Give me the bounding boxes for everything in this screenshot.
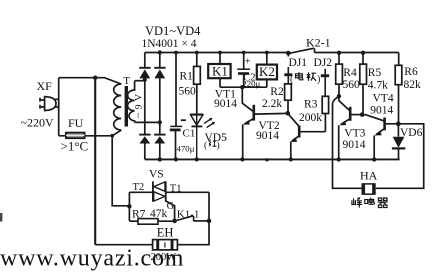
label buzzer chinese (feng ming qi) <box>352 198 388 208</box>
resistor R5 <box>361 51 365 55</box>
svg-text:T: T <box>123 75 130 87</box>
wire: L branch vertical to heater loop <box>94 78 96 245</box>
svg-text:FU: FU <box>68 116 84 130</box>
switch K1-1 <box>177 216 194 222</box>
svg-text:G: G <box>167 201 175 212</box>
svg-text:9014: 9014 <box>214 98 237 110</box>
svg-text:470μ: 470μ <box>177 144 195 154</box>
relay coil K1 <box>218 51 222 55</box>
heater EH <box>153 240 178 250</box>
node: secondary bottom tap <box>158 120 162 124</box>
resistor R1 <box>195 51 199 55</box>
transformer T secondary winding <box>128 81 135 123</box>
diode VD6 <box>397 124 399 137</box>
svg-text:200k: 200k <box>299 112 322 124</box>
fuse FU body <box>66 133 85 139</box>
wire: plug top lead <box>53 78 59 136</box>
svg-text:HA: HA <box>360 169 378 183</box>
svg-text:~220V: ~220V <box>21 116 54 130</box>
svg-text:VD1~VD4: VD1~VD4 <box>145 24 201 38</box>
node: buzzer feed tap <box>337 94 341 98</box>
svg-text:(: ( <box>290 74 294 85</box>
svg-text:R7: R7 <box>132 208 146 220</box>
node: VT1 emitter bottom <box>240 157 244 161</box>
svg-text:1N4001 × 4: 1N4001 × 4 <box>142 38 197 50</box>
transistor VT2 <box>288 113 299 125</box>
node: T2/R7 split <box>127 204 131 208</box>
plug XF body <box>45 97 56 111</box>
node: rail speck <box>265 158 268 161</box>
svg-text:T2: T2 <box>133 182 145 193</box>
svg-text:9014: 9014 <box>343 139 366 151</box>
svg-text:www.wuyazi.com: www.wuyazi.com <box>0 246 184 272</box>
LED VD5 arrows <box>204 118 215 127</box>
node: right column top <box>158 50 162 54</box>
transistor VT3 <box>339 96 350 110</box>
triac VS <box>152 181 154 201</box>
buzzer HA <box>362 183 365 195</box>
left edge speck <box>0 213 2 222</box>
resistor R4 <box>337 51 341 55</box>
wire: bottom emitter rail <box>145 158 400 160</box>
plug prong top <box>40 98 45 102</box>
wire: buzzer right link <box>376 124 424 189</box>
transistor VT1 <box>242 87 253 111</box>
node: VT3 emitter bottom <box>337 157 341 161</box>
svg-text:R4: R4 <box>343 67 357 79</box>
wire: plug bottom lead <box>53 106 59 108</box>
wire: VS branch from neutral <box>112 136 129 206</box>
diode VD1 <box>139 67 150 69</box>
LED VD5 <box>190 113 203 115</box>
capacitor C2 <box>242 51 246 55</box>
wire: T1 lead <box>166 191 209 193</box>
wire: bridge right column <box>159 53 161 160</box>
glyph feng <box>352 198 362 208</box>
svg-text:2.2k: 2.2k <box>262 98 282 110</box>
node: VT3 collector / VT4 base junction <box>360 112 365 117</box>
svg-text:560: 560 <box>343 79 361 91</box>
svg-text:VT4: VT4 <box>373 92 394 104</box>
switch K2-1 <box>286 51 291 56</box>
svg-text:560: 560 <box>179 86 197 98</box>
wire: top DC rail <box>145 52 290 54</box>
svg-text:47k: 47k <box>150 208 168 220</box>
transistor VT4 <box>362 115 384 121</box>
svg-text:): ) <box>217 140 220 151</box>
svg-text:R6: R6 <box>404 66 418 78</box>
wire: secondary top to bridge <box>135 80 145 82</box>
capacitor C1 <box>174 51 178 55</box>
wire: EH right side <box>177 192 209 244</box>
svg-text:(: ( <box>204 140 207 151</box>
svg-text:R5: R5 <box>368 67 382 79</box>
svg-text:K1-1: K1-1 <box>177 208 200 220</box>
svg-text:R3: R3 <box>304 98 318 110</box>
svg-text:DJ1: DJ1 <box>289 57 308 69</box>
node: bridge right bottom <box>158 157 162 161</box>
node: VT2 emitter bottom <box>289 157 293 161</box>
relay coil K2 <box>265 51 269 55</box>
wire: secondary bottom to bridge <box>135 121 160 123</box>
wire: gate lead <box>166 201 175 221</box>
glyph ji <box>307 72 316 81</box>
svg-text:EH: EH <box>157 225 174 239</box>
plug prong bottom <box>40 105 45 109</box>
diode VD3 <box>139 134 150 136</box>
node: VD5 bottom <box>195 157 199 161</box>
svg-text:VS: VS <box>149 168 164 180</box>
svg-text:DJ2: DJ2 <box>314 57 333 69</box>
svg-text:VT3: VT3 <box>344 128 365 140</box>
node: L branch junction <box>93 76 97 80</box>
svg-text:K2-1: K2-1 <box>306 35 331 49</box>
wire: K1/C2/K2 bottom connector <box>220 86 267 88</box>
svg-text:82k: 82k <box>404 79 422 91</box>
electrode DJ1 <box>287 53 289 84</box>
resistor R2 <box>285 84 292 100</box>
node: VT1 base tap <box>240 85 244 89</box>
svg-text:XF: XF <box>37 79 53 93</box>
wire: EH left side <box>95 244 152 246</box>
transformer T primary winding <box>114 84 122 130</box>
glyph ming <box>365 198 375 204</box>
electrode DJ2 <box>324 69 326 97</box>
glyph dian <box>296 72 303 80</box>
diode VD2 <box>154 67 165 69</box>
wire: fuse/neutral wire <box>59 130 121 136</box>
svg-text:R2: R2 <box>270 86 284 98</box>
node: gate/R7/K1-1 junction <box>172 219 177 224</box>
svg-text:~9V: ~9V <box>135 94 145 118</box>
node: K1-1 right junction <box>207 219 212 224</box>
svg-text:K2: K2 <box>259 64 275 79</box>
svg-text:VD6: VD6 <box>400 127 423 139</box>
resistor R7 <box>138 219 158 225</box>
diode VD4 <box>154 134 165 136</box>
transformer T core <box>125 86 128 127</box>
svg-text:9014: 9014 <box>370 104 393 116</box>
svg-text:220μ: 220μ <box>242 79 260 89</box>
wire: bridge left column <box>144 53 146 160</box>
node: secondary top tap <box>143 78 147 82</box>
wire: T2 lead <box>129 191 152 193</box>
svg-text:C1: C1 <box>183 128 196 140</box>
svg-text:K1: K1 <box>212 64 228 79</box>
svg-text:T1: T1 <box>170 183 182 194</box>
label DJ1 <box>286 57 308 68</box>
glyph qi <box>378 198 388 208</box>
resistor R6 <box>398 53 400 124</box>
node: VT1/VT2 collector junction <box>286 111 291 116</box>
svg-text:): ) <box>317 74 320 85</box>
svg-text:>1°C: >1°C <box>61 139 89 154</box>
svg-text:+: + <box>245 57 251 68</box>
wire: buzzer feed from R4 node <box>333 97 362 189</box>
node: VT4 collector / VD6 junction <box>396 121 401 126</box>
wire: mains top L wire <box>59 78 121 84</box>
svg-text:9014: 9014 <box>256 130 279 142</box>
node: C1 bottom <box>174 157 178 161</box>
resistor R3 <box>322 96 328 113</box>
svg-text:R1: R1 <box>180 71 194 83</box>
svg-text:4.7k: 4.7k <box>368 80 388 92</box>
node: VT4 emitter bottom <box>372 157 376 161</box>
